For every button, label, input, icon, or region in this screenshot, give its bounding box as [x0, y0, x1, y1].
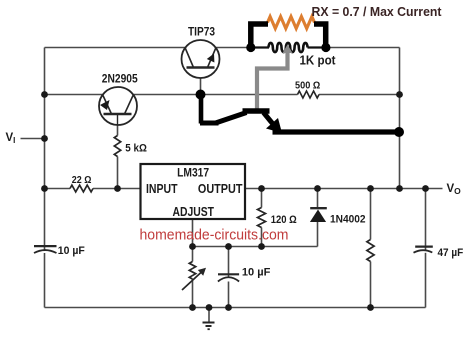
- node RX right: [321, 43, 330, 52]
- potentiometer 1K leads: [251, 46, 327, 48]
- wire TIP73 base down: [200, 68, 202, 95]
- resistor RX: [268, 17, 315, 29]
- wire ADJUST pin down: [192, 219, 194, 262]
- wire 2N2905 collector to node: [133, 94, 201, 96]
- potentiometer ADJ: [189, 262, 195, 280]
- node junction at 228,246: [225, 243, 232, 250]
- wire Q3 emitter thick: [273, 129, 400, 134]
- svg-text:22 Ω: 22 Ω: [72, 174, 92, 186]
- potentiometer ADJ arrow: [182, 272, 202, 290]
- wire load resistor top: [370, 189, 372, 240]
- ground: [203, 323, 215, 330]
- wire load resistor bottom: [370, 262, 372, 308]
- node junction at 117,188: [114, 185, 121, 192]
- wire top row to TIP73 base-collector: [45, 47, 186, 49]
- wire 500ohm row: [201, 94, 298, 96]
- node junction at 425,188: [422, 185, 429, 192]
- svg-text:TIP73: TIP73: [188, 27, 215, 39]
- svg-text:OUTPUT: OUTPUT: [198, 182, 243, 196]
- resistor 500 ohm: [298, 91, 320, 98]
- wire TIP73 emitter to RX node: [216, 47, 251, 49]
- svg-text:ADJUST: ADJUST: [173, 205, 215, 219]
- resistor load: [367, 240, 374, 262]
- svg-text:RX = 0.7 / Max Current: RX = 0.7 / Max Current: [312, 5, 443, 19]
- wire input row: [45, 188, 71, 190]
- wire adjust row y246: [193, 246, 318, 248]
- node junction at 228,307: [225, 304, 232, 311]
- svg-text:1K pot: 1K pot: [300, 54, 337, 68]
- wire 2N2905 base down to 5k: [117, 114, 119, 136]
- node junction at 261,188: [258, 185, 265, 192]
- node Q3 emitter: [394, 127, 404, 137]
- resistor 120 ohm: [258, 208, 266, 228]
- wire 2N2905 row left: [45, 94, 104, 96]
- capacitor C3 47uF output: [414, 247, 433, 253]
- svg-text:10 µF: 10 µF: [58, 245, 85, 257]
- svg-text:homemade-circuits.com: homemade-circuits.com: [140, 227, 289, 244]
- wire 120ohm branch: [261, 189, 263, 208]
- wire adj pot to bottom: [192, 279, 194, 308]
- wire pot right node to right corner: [327, 47, 400, 49]
- op-amp U1 LM317 regulator box: [141, 164, 246, 219]
- wire ground stub: [208, 308, 210, 323]
- wire 47uF top: [425, 189, 427, 251]
- svg-text:1N4002: 1N4002: [330, 213, 366, 225]
- wire 5k to input row: [117, 157, 119, 189]
- svg-text:10 µF: 10 µF: [242, 267, 271, 279]
- node junction at 317,188: [314, 185, 321, 192]
- svg-text:2N2905: 2N2905: [102, 74, 138, 86]
- diode 1N4002: [310, 208, 327, 222]
- transistor Q1 TIP73: [182, 40, 220, 78]
- svg-text:LM317: LM317: [177, 168, 209, 180]
- node junction at 44,94: [41, 91, 48, 98]
- resistor RX thick lead right: [314, 24, 326, 45]
- resistor 5k: [114, 136, 120, 157]
- node junction at 44,138: [41, 135, 48, 142]
- transistor Q3 power (thick): [200, 96, 273, 124]
- node RX left: [246, 43, 255, 52]
- node junction at 399,188: [396, 185, 403, 192]
- wire gray pot wiper to Q3 base: [257, 53, 288, 110]
- wire output row: [245, 188, 443, 190]
- wire mid cap bottom: [228, 282, 230, 308]
- node Q1 base / Q3 collector: [196, 90, 206, 100]
- transistor Q2 2N2905: [99, 87, 137, 125]
- potentiometer 1K wiper arrow: [283, 45, 293, 54]
- node junction at 192,307: [189, 304, 196, 311]
- node junction at 208.5,307: [206, 304, 213, 311]
- node junction at 261,246: [258, 243, 265, 250]
- svg-text:120 Ω: 120 Ω: [271, 214, 297, 226]
- wire Vi stub: [21, 138, 45, 140]
- svg-text:47 µF: 47 µF: [438, 247, 464, 259]
- svg-text:5 kΩ: 5 kΩ: [125, 143, 147, 155]
- wire left rail: [44, 48, 46, 251]
- wire diode branch: [317, 189, 319, 208]
- svg-text:INPUT: INPUT: [146, 182, 178, 196]
- resistor 22 ohm: [70, 185, 93, 192]
- wire mid cap top: [228, 247, 230, 278]
- node junction at 370,188: [367, 185, 374, 192]
- node junction at 44,188: [41, 185, 48, 192]
- wire 47uF bottom: [425, 253, 427, 308]
- node junction at 370,307: [367, 304, 374, 311]
- node junction at 192,246: [189, 243, 196, 250]
- transistor Q3 emitter arrow: [266, 118, 282, 133]
- capacitor C1 10uF input: [34, 246, 57, 253]
- resistor RX thick lead left: [251, 24, 268, 45]
- wire right vertical x399: [399, 48, 401, 189]
- capacitor C2 10uF adjust: [218, 274, 239, 281]
- potentiometer 1K: [269, 43, 308, 52]
- svg-text:500 Ω: 500 Ω: [295, 80, 320, 92]
- wire bottom row: [45, 307, 426, 309]
- node junction at 399,94: [396, 91, 403, 98]
